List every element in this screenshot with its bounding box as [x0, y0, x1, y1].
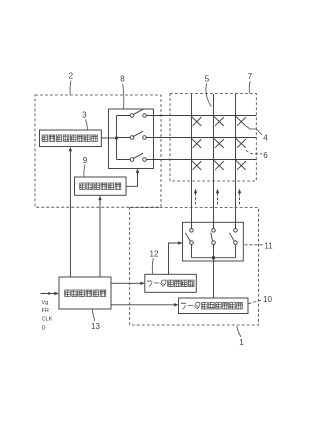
svg-text:6: 6 [263, 151, 268, 160]
dashed leader line for label 6 [246, 150, 262, 154]
leader line for label 13 [92, 310, 95, 321]
svg-text:11: 11 [264, 242, 273, 251]
node A (junction dot) [115, 136, 118, 139]
wire scan bus in block 8 [116, 116, 118, 160]
leader line for label 3 [86, 119, 88, 130]
switch SW1 [130, 109, 146, 117]
switch SW5 [211, 229, 216, 245]
wire external input to block 13 [41, 293, 57, 295]
wire data feed from node B to block 10 [213, 258, 215, 298]
switch SW3 [130, 153, 146, 161]
wire block 9 to block 8 [126, 171, 138, 187]
svg-text:7: 7 [248, 72, 253, 81]
wire scan row line Y1 [146, 115, 256, 117]
arrowhead into block 10 [174, 303, 179, 306]
signal direction arrow on column X3 [238, 189, 241, 205]
signal direction arrow on column X2 [216, 189, 219, 205]
block 9 text 走査制御回路 [80, 183, 121, 189]
node B (junction dot) [212, 256, 215, 259]
block 9 scan control circuit [75, 177, 127, 195]
wire block 13 up to block 9 [99, 198, 101, 278]
svg-text:D: D [42, 325, 46, 331]
block 8 scan switch group box [109, 109, 154, 169]
switch SW6 [229, 229, 237, 245]
wire data bus in block 11 [192, 257, 236, 259]
svg-text:10: 10 [263, 295, 272, 304]
block 12 data discrimination circuit [145, 274, 197, 292]
block 10 text データ電圧生成回路 [181, 302, 242, 309]
display element E32 [214, 160, 224, 170]
switch SW2 [130, 131, 146, 139]
svg-text:4: 4 [263, 134, 268, 143]
leader line for label 7 [249, 81, 250, 93]
display element E12 [214, 116, 224, 126]
arrowhead into block 8 [136, 168, 139, 173]
svg-text:5: 5 [205, 74, 210, 83]
block 3 text 走査電圧生成回路 [42, 135, 97, 141]
dashed leader line for label 10 [249, 300, 263, 304]
block 11 data switch group box [183, 222, 244, 261]
leader line for label 12 [152, 258, 153, 274]
arrowhead into block 13 [54, 292, 59, 295]
arrowhead into block 3 [69, 147, 72, 152]
display element E33 [236, 160, 246, 170]
arrowhead into block 12 [140, 282, 145, 285]
switch SW4 [185, 229, 193, 245]
wire bus stubs to switch inputs [117, 116, 131, 160]
wire data column line X2 [213, 94, 215, 229]
display element E13 [236, 116, 246, 126]
dashed group border 1 (data-side circuit block) [130, 208, 259, 325]
svg-text:FR: FR [42, 308, 49, 314]
block 3 scan voltage generating circuit [40, 130, 102, 147]
svg-text:8: 8 [120, 75, 125, 84]
display element E31 [191, 160, 201, 170]
arrowhead into block 11 [178, 241, 183, 244]
block 10 data voltage generating circuit [179, 298, 249, 314]
leader line for label 4 [246, 126, 262, 135]
svg-text:Vg: Vg [42, 300, 49, 306]
dashed leader line for label 11 [245, 244, 264, 246]
svg-text:1: 1 [239, 338, 244, 347]
svg-text:CLK: CLK [42, 316, 53, 322]
leader line for label 8 [123, 84, 124, 109]
svg-text:2: 2 [69, 72, 74, 81]
wire block 12 to block 11 [169, 243, 181, 274]
svg-text:3: 3 [82, 111, 87, 120]
svg-text:13: 13 [91, 322, 100, 331]
signal direction arrow on column X1 [194, 189, 197, 205]
display element E11 [191, 116, 201, 126]
wire data column line X3 [235, 94, 237, 229]
display element E21 [191, 138, 201, 148]
dashed group border 2 (scan-side circuit block) [35, 95, 161, 207]
wire data column line X1 [191, 94, 193, 229]
wire scan row line Y2 [146, 137, 256, 139]
dashed panel border 7 (display element matrix) [170, 94, 256, 182]
display element E23 [236, 138, 246, 148]
block 12 text データ判別回路 [147, 280, 194, 287]
leader line for label 9 [84, 165, 85, 177]
wire block 13 to block 12 [111, 282, 143, 284]
svg-text:9: 9 [83, 156, 88, 165]
leader line for label 2 [69, 81, 72, 95]
wire block 13 up to block 3 [69, 149, 71, 278]
display element E22 [214, 138, 224, 148]
wire switch outputs to data bus [192, 244, 236, 257]
wire block 3 output to bus node A [101, 137, 116, 139]
node C input junction dot [48, 292, 50, 294]
leader line for label 1 [237, 326, 241, 337]
wire scan row line Y3 [146, 159, 256, 161]
wire block 13 to block 10 [111, 304, 177, 306]
block 13 drive control circuit [59, 277, 111, 309]
svg-text:12: 12 [150, 250, 159, 259]
block 13 text 駆動制御回路 [65, 290, 106, 296]
arrowhead into block 9 [98, 196, 101, 201]
leader line for label 5 [206, 84, 211, 107]
